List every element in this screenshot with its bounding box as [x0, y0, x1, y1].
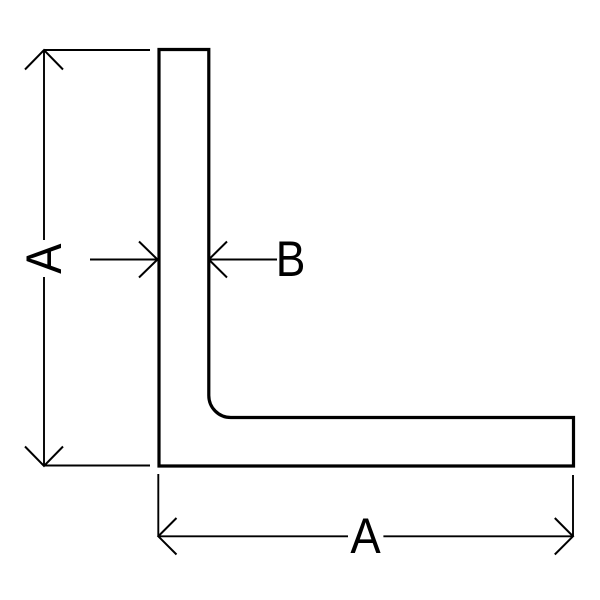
angle profile outline: [159, 50, 574, 467]
dimension B: right line: [209, 259, 277, 261]
dimension A left: dimension line (broken for label): [43, 50, 45, 466]
dimension B: label B: [276, 231, 306, 287]
dimension B: left arrowhead (pointing right): [139, 242, 158, 278]
dimension A bottom: label A: [350, 509, 380, 565]
dimension A bottom: extension line left: [157, 474, 159, 536]
dimension A left: label A (rotated): [17, 244, 73, 274]
dimension B: left line: [90, 259, 158, 261]
dimension A left: extension line bottom: [44, 465, 150, 467]
dimension B: right arrowhead (pointing left): [209, 242, 227, 278]
svg-text:B: B: [276, 231, 306, 287]
dimension A bottom: extension line right: [572, 475, 574, 536]
dimension A bottom: right arrowhead (pointing right): [555, 518, 573, 555]
dimension A bottom: dimension line (broken for label): [158, 535, 573, 537]
dimension A left: arrowhead down: [25, 447, 63, 467]
svg-text:A: A: [17, 244, 73, 274]
dimension A left: extension line top: [44, 49, 150, 51]
svg-text:A: A: [350, 509, 380, 565]
dimension A left: arrowhead up: [25, 50, 63, 70]
dimension A bottom: left arrowhead (pointing left): [158, 518, 176, 555]
